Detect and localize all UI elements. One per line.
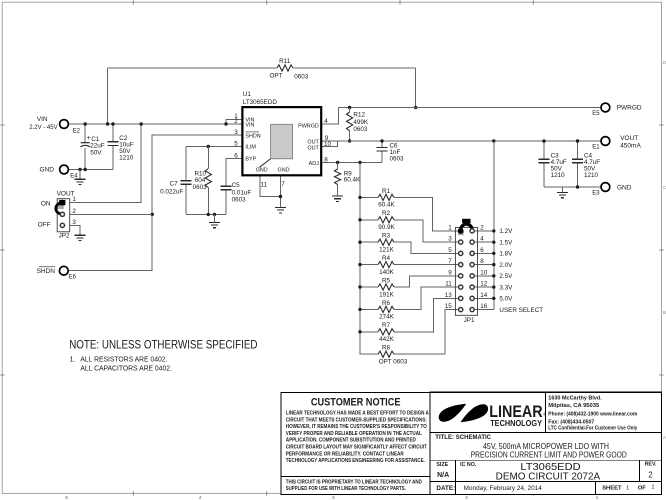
svg-text:3.3V: 3.3V [499, 284, 513, 291]
resistor R6 274K [378, 306, 394, 312]
junction rail / R3 [358, 241, 361, 244]
wire JP2 pin 2 to SHDN [70, 213, 153, 215]
svg-text:1: 1 [651, 484, 654, 490]
resistor R4 140K [378, 262, 394, 268]
resistor R3 121K [378, 239, 394, 245]
capacitor C2 symbol [108, 142, 119, 146]
junction VOUT / R12 [348, 139, 351, 142]
junction E4 / C1 [84, 168, 87, 171]
svg-text:2.5V: 2.5V [499, 273, 513, 280]
svg-text:IC NO.: IC NO. [460, 462, 477, 468]
resistor R11 OPT 0603 [277, 65, 293, 71]
svg-text:PWRGD: PWRGD [298, 123, 319, 129]
svg-text:2.2V - 45V: 2.2V - 45V [29, 125, 57, 131]
svg-text:140K: 140K [379, 269, 395, 276]
wire R11 right riser to PWRGD net [415, 68, 417, 108]
junction rail / ground [213, 213, 216, 216]
junction VIN / C2 [111, 122, 114, 125]
svg-text:3: 3 [448, 236, 452, 243]
wire ADJ net [321, 162, 382, 164]
svg-text:1: 1 [448, 224, 452, 231]
wire JP1 pin 8 to VOUT rail [474, 264, 494, 266]
wire C6 bottom stub [381, 151, 383, 163]
JP1 pin 5 pad [459, 251, 463, 255]
svg-text:Fax: (408)434-0507: Fax: (408)434-0507 [548, 420, 594, 426]
svg-text:JP1: JP1 [464, 317, 475, 324]
svg-text:SIZE: SIZE [436, 462, 448, 468]
svg-text:8: 8 [324, 157, 328, 164]
capacitor C5 symbol [220, 186, 231, 190]
svg-text:2: 2 [234, 118, 238, 125]
svg-text:E2: E2 [73, 129, 81, 135]
wire C4 top stub [577, 141, 579, 159]
wire R6 to JP1 odd pin [394, 287, 459, 309]
svg-text:121K: 121K [379, 247, 395, 254]
svg-text:ALL RESISTORS ARE 0402.: ALL RESISTORS ARE 0402. [80, 357, 167, 364]
svg-text:R1: R1 [382, 188, 391, 195]
svg-text:1630 McCarthy Blvd.: 1630 McCarthy Blvd. [548, 395, 602, 401]
wire C2 top stub [112, 124, 114, 142]
junction rail / pin 6 [492, 252, 495, 255]
svg-text:+: + [87, 135, 91, 142]
JP2 shunt plug over pin 1 [59, 200, 65, 205]
wire C3 bottom stub [543, 163, 545, 187]
svg-text:0603: 0603 [232, 197, 247, 204]
JP1 pin 11 pad [459, 285, 463, 289]
Linear Technology logo [439, 404, 467, 422]
svg-text:1210: 1210 [119, 154, 134, 161]
resistor R12 499K 0603 [347, 112, 353, 131]
capacitor C6 symbol [377, 147, 388, 151]
wire ground stem [214, 214, 216, 222]
junction ADJ / R9 [336, 161, 339, 164]
svg-text:JP2: JP2 [59, 233, 70, 240]
junction ADJ / divider rail [358, 161, 361, 164]
wire JP1 pin 16 to VOUT rail [474, 309, 494, 311]
svg-text:R6: R6 [382, 300, 391, 307]
svg-text:11: 11 [445, 281, 452, 288]
svg-text:1.5V: 1.5V [499, 239, 513, 246]
ground at U1 pins 7/11 [275, 207, 286, 212]
svg-text:3: 3 [234, 129, 238, 136]
wire C7 bottom branch [185, 184, 187, 214]
wire JP1 pin 12 to VOUT rail [474, 286, 494, 288]
terminal E4 GND [60, 165, 69, 174]
svg-text:R2: R2 [382, 210, 391, 217]
wire C6 top stub [381, 141, 383, 147]
svg-text:ILIM: ILIM [245, 145, 256, 151]
svg-text:1.8V: 1.8V [499, 251, 513, 258]
svg-text:499K: 499K [353, 119, 369, 126]
wire JP1 pin 4 to VOUT rail [474, 241, 494, 243]
svg-text:R3: R3 [382, 233, 391, 240]
svg-text:HOWEVER, IT REMAINS THE CUSTOM: HOWEVER, IT REMAINS THE CUSTOMER'S RESPO… [286, 424, 427, 430]
wire R12 bottom stub [349, 131, 351, 141]
svg-text:TECHNOLOGY: TECHNOLOGY [490, 418, 542, 428]
svg-text:R8: R8 [382, 345, 391, 352]
svg-text:OPT: OPT [270, 73, 283, 80]
wire JP1 pin 14 to VOUT rail [474, 297, 494, 299]
svg-text:10: 10 [480, 269, 488, 276]
svg-text:E4: E4 [70, 174, 78, 180]
wire U1 pin 4 PWRGD stub [321, 108, 338, 125]
svg-text:6: 6 [480, 247, 484, 254]
U1 pin name labels [245, 117, 319, 173]
ground at R9 [332, 196, 343, 201]
wire JP2 pin 1 to VIN [70, 124, 142, 203]
junction VOUT / C3 [542, 139, 545, 142]
ground at C5/C7/R10 [209, 222, 220, 227]
svg-text:8: 8 [480, 258, 484, 265]
wire rail to R7 [360, 331, 378, 333]
wire R7 to JP1 odd pin [394, 298, 459, 331]
terminal E3 GND [601, 183, 610, 192]
terminal E5 PWRGD [601, 103, 610, 112]
svg-text:GND: GND [617, 184, 632, 191]
wire VIN net: E2 to U1 pin 2 [68, 123, 242, 125]
svg-text:ON: ON [41, 200, 51, 207]
svg-text:4: 4 [480, 236, 484, 243]
wire rail to R1 [360, 196, 378, 198]
svg-text:5: 5 [448, 247, 452, 254]
svg-text:BYP: BYP [245, 157, 256, 163]
JP1 pin 4 pad [470, 240, 474, 244]
JP1 pin 15 pad [459, 307, 463, 311]
wire rail to R4 [360, 264, 378, 266]
svg-text:THIS CIRCUIT IS PROPRIETARY TO: THIS CIRCUIT IS PROPRIETARY TO LINEAR TE… [286, 479, 422, 485]
JP1 pin 8 pad [470, 263, 474, 267]
svg-text:5: 5 [234, 140, 238, 147]
capacitor C1 symbol [80, 143, 90, 147]
JP1 pin 12 pad [470, 285, 474, 289]
terminal E6 SHDN [59, 266, 68, 275]
svg-text:191K: 191K [379, 291, 395, 298]
wire JP1 pin 6 to VOUT rail [474, 252, 494, 254]
svg-text:PERFORMANCE OR RELIABILITY. C: PERFORMANCE OR RELIABILITY. CONTACT LINE… [286, 451, 404, 457]
resistor R10 604 0603 [205, 169, 211, 188]
svg-text:0603: 0603 [353, 126, 368, 133]
svg-text:E1: E1 [592, 145, 600, 151]
svg-text:N/A: N/A [437, 472, 449, 479]
terminal E2 VIN [60, 120, 69, 129]
svg-text:3: 3 [72, 219, 76, 226]
ground at E4 [75, 179, 86, 184]
svg-text:1210: 1210 [584, 172, 599, 179]
svg-text:DATE:: DATE: [436, 485, 455, 492]
JP1 pin 1 pad [459, 229, 463, 233]
svg-text:0603: 0603 [193, 184, 208, 191]
JP1 pin 14 pad [470, 296, 474, 300]
junction PWRGD / R11 [414, 106, 417, 109]
svg-text:4: 4 [199, 495, 202, 500]
junction rail / pin 12 [492, 285, 495, 288]
svg-text:16: 16 [480, 303, 488, 310]
svg-text:0603: 0603 [294, 73, 309, 80]
wire R10 bottom stub [207, 188, 209, 215]
resistor R2 90.9K [378, 217, 394, 223]
junction U1 ground pins [279, 195, 282, 198]
junction rail / R6 [358, 308, 361, 311]
svg-text:0.01uF: 0.01uF [232, 189, 252, 196]
svg-text:R4: R4 [382, 255, 391, 262]
svg-text:TECHNOLOGY APPLICATIONS ENGINE: TECHNOLOGY APPLICATIONS ENGINEERING FOR … [286, 458, 425, 464]
wire VOUT net: U1 pin 9 to E1 [321, 140, 601, 142]
wire R9 bottom stub [337, 185, 339, 197]
svg-text:NOTE: UNLESS OTHERWISE SPECIFI: NOTE: UNLESS OTHERWISE SPECIFIED [69, 337, 258, 351]
wire divider rail from ADJ [360, 163, 378, 355]
wire R3 to JP1 odd pin [394, 242, 459, 253]
wire U1 pin 11 to ground [260, 175, 280, 196]
wire rail to R2 [360, 219, 378, 221]
customer notice box [281, 392, 430, 494]
svg-text:4: 4 [324, 118, 328, 125]
svg-text:VIN: VIN [37, 116, 48, 123]
svg-text:0603: 0603 [390, 156, 405, 163]
junction VOUT / JP1 rail [492, 139, 495, 142]
svg-text:SHDN: SHDN [245, 133, 260, 139]
svg-text:U1: U1 [243, 91, 252, 98]
svg-text:OFF: OFF [38, 222, 51, 229]
wire R5 to JP1 odd pin [394, 276, 459, 287]
svg-text:7: 7 [448, 258, 452, 265]
svg-text:11: 11 [261, 181, 268, 188]
wire R11 left riser [107, 68, 109, 124]
wire VOUT rail to JP1 even pins [493, 141, 495, 310]
svg-text:E6: E6 [69, 275, 77, 281]
resistor R8 OPT 0603 [378, 351, 394, 357]
svg-text:60.4K: 60.4K [378, 202, 395, 209]
ground at C3/C4 [557, 192, 568, 197]
svg-text:Phone: (408)432-1900 www.lin: Phone: (408)432-1900 www.linear.com [548, 411, 637, 417]
svg-text:DEMO CIRCUIT 2072A: DEMO CIRCUIT 2072A [496, 471, 601, 483]
wire PWRGD net to E5 [338, 107, 601, 109]
svg-text:SHDN: SHDN [37, 268, 56, 275]
wire R12 top stub [349, 108, 351, 113]
wire BYP net: U1 pin 6 to C5 [226, 159, 243, 187]
svg-text:PRECISION CURRENT LIMIT AND PO: PRECISION CURRENT LIMIT AND POWER GOOD [471, 451, 627, 460]
svg-text:R5: R5 [382, 277, 391, 284]
resistor R9 60.4K [335, 169, 341, 185]
svg-text:60.4K: 60.4K [344, 177, 361, 184]
svg-text:12: 12 [480, 281, 488, 288]
svg-text:1210: 1210 [551, 172, 566, 179]
svg-text:2: 2 [465, 495, 468, 500]
svg-text:14: 14 [480, 292, 488, 299]
junction rail / pin 2 [492, 229, 495, 232]
junction C4 / GND net [576, 185, 579, 188]
resistor R1 60.4K [378, 194, 394, 200]
svg-text:2: 2 [72, 208, 76, 215]
wire U1 pin 7 to ground [280, 175, 282, 207]
svg-text:CUSTOMER NOTICE: CUSTOMER NOTICE [311, 396, 401, 408]
svg-text:C5: C5 [232, 182, 241, 189]
wire rail to R5 [360, 286, 378, 288]
svg-text:OPT 0603: OPT 0603 [379, 359, 408, 366]
junction rail / R2 [358, 218, 361, 221]
svg-text:6: 6 [234, 152, 238, 159]
junction E4 / ground stem [78, 168, 81, 171]
junction PWRGD / R12 [348, 106, 351, 109]
junction rail / pin 8 [492, 263, 495, 266]
svg-text:5.0V: 5.0V [499, 296, 513, 303]
svg-text:REV.: REV. [645, 462, 657, 468]
junction VOUT / C4 [576, 139, 579, 142]
svg-text:15: 15 [445, 303, 453, 310]
svg-text:LTC Confidential-For Customer: LTC Confidential-For Customer Use Only [548, 426, 638, 432]
wire rail to R3 [360, 241, 378, 243]
resistor R7 442K [378, 329, 394, 335]
svg-text:1.2V: 1.2V [499, 228, 513, 235]
capacitor C3 symbol [539, 159, 550, 163]
svg-text:CIRCUIT THAT MEETS CUSTOMER-SU: CIRCUIT THAT MEETS CUSTOMER-SUPPLIED SPE… [286, 417, 427, 423]
svg-text:3: 3 [332, 495, 335, 500]
svg-text:LT3065EDD: LT3065EDD [243, 99, 278, 106]
op-amp U1 LT3065EDD regulator body [242, 107, 321, 175]
JP1 pin 16 pad [470, 307, 474, 311]
svg-text:R12: R12 [353, 112, 365, 119]
junction ILIM / R10 [207, 145, 210, 148]
svg-text:GND: GND [256, 168, 268, 174]
wire C2 bottom stub [112, 146, 114, 170]
svg-text:2: 2 [648, 470, 653, 479]
junction rail / R5 [358, 285, 361, 288]
svg-text:VOUT: VOUT [620, 135, 638, 142]
svg-text:10: 10 [324, 141, 332, 148]
svg-text:E5: E5 [592, 111, 600, 117]
wire C5 bottom stub [225, 190, 227, 215]
JP1 pin 7 pad [459, 263, 463, 267]
junction SHDN / JP2 pin 2 [151, 213, 154, 216]
svg-text:1.: 1. [70, 357, 76, 364]
wire R1 to JP1 odd pin [394, 197, 459, 231]
svg-text:R7: R7 [382, 322, 391, 329]
svg-text:GND: GND [278, 168, 290, 174]
svg-text:9: 9 [448, 269, 452, 276]
svg-text:VIN: VIN [245, 122, 254, 128]
capacitor C7 symbol [180, 181, 191, 185]
wire R8 to JP1 odd pin [394, 310, 459, 355]
junction VIN / C1 [84, 122, 87, 125]
junction VIN / R11 [106, 122, 109, 125]
junction VIN / JP2 riser [140, 122, 143, 125]
wire R9 top stub [337, 163, 339, 170]
wire C7 top branch [185, 147, 187, 181]
JP1 pin 6 pad [470, 251, 474, 255]
wire C1 top stub [84, 124, 86, 143]
svg-text:APPLICATION. COMPONENT SUBSTI: APPLICATION. COMPONENT SUBSTITUTION AND … [286, 438, 416, 444]
svg-text:C7: C7 [170, 180, 179, 187]
JP1 pin 10 pad [470, 274, 474, 278]
svg-text:PWRGD: PWRGD [617, 105, 642, 112]
resistor R5 191K [378, 284, 394, 290]
wire R2 to JP1 odd pin [394, 220, 459, 242]
junction rail / pin 14 [492, 297, 495, 300]
svg-text:90.9K: 90.9K [378, 224, 395, 231]
wire C4 bottom stub [577, 163, 579, 187]
svg-text:Monday, February 24, 2014: Monday, February 24, 2014 [464, 485, 543, 492]
wire JP1 pin 10 to VOUT rail [474, 275, 494, 277]
svg-text:®: ® [543, 411, 546, 416]
JP2 pin 1 pad [60, 201, 64, 205]
svg-text:Milpitas, CA 95035: Milpitas, CA 95035 [548, 403, 600, 409]
JP1 shunt plug over pin 1 [458, 228, 464, 234]
terminal E1 VOUT [601, 137, 610, 146]
JP1 shunt jumper on pins 1-2 [458, 232, 464, 236]
svg-text:450mA: 450mA [620, 142, 641, 149]
junction rail / pin 10 [492, 274, 495, 277]
wire U1 pin 10 link [321, 141, 337, 147]
wire U1 pin 1 link [226, 120, 242, 125]
JP1 pin 13 pad [459, 296, 463, 300]
wire R4 to JP1 pin 7 [394, 264, 459, 266]
svg-text:SHEET: SHEET [602, 486, 622, 492]
wire JP1 pin 2 to VOUT rail [474, 230, 494, 232]
svg-text:OF: OF [638, 486, 647, 492]
wire ground stem at E4 [79, 170, 81, 180]
wire C1 bottom stub [84, 148, 86, 169]
JP2 pin 3 pad [60, 223, 64, 227]
connector JP1 body [455, 227, 477, 315]
wire JP2 pin 3 to ground [70, 225, 80, 235]
svg-text:0.022uF: 0.022uF [160, 189, 183, 196]
junction VIN pin link [224, 122, 227, 125]
svg-text:1: 1 [596, 495, 599, 500]
junction rail / R1 [358, 196, 361, 199]
wire ILIM/BYP ground rail [186, 213, 226, 215]
U1 exposed pad tie line [259, 159, 270, 168]
svg-text:SCHEMATIC: SCHEMATIC [456, 435, 492, 441]
junction rail / R10 [207, 213, 210, 216]
title block frame [430, 392, 661, 494]
JP1 pin 9 pad [459, 274, 463, 278]
svg-text:7: 7 [281, 181, 285, 188]
svg-text:E3: E3 [592, 191, 600, 197]
svg-text:TITLE:: TITLE: [435, 435, 454, 441]
wire ILIM net: U1 pin 5 [186, 146, 243, 148]
ground at JP2 pin 3 [75, 235, 86, 240]
svg-text:OUT: OUT [307, 145, 319, 151]
junction rail / R7 [358, 330, 361, 333]
junction rail / pin 4 [492, 240, 495, 243]
wire R11 right segment [294, 67, 416, 69]
capacitor C4 symbol [572, 159, 583, 163]
JP1 pin 2 pad [470, 229, 474, 233]
JP2 shunt ON jumper [58, 205, 64, 209]
svg-text:CIRCUIT BOARD LAYOUT MAY SIGNI: CIRCUIT BOARD LAYOUT MAY SIGNIFICANTLY A… [286, 445, 428, 451]
wire R10 top stub [207, 147, 209, 169]
svg-text:2: 2 [480, 224, 484, 231]
wire ground stem at E3 [562, 187, 564, 192]
svg-text:274K: 274K [379, 314, 395, 321]
wire rail to R6 [360, 308, 378, 310]
wire SHDN net: U1 pin 3 to E6 [68, 135, 242, 271]
svg-text:GND: GND [40, 166, 55, 173]
JP1 pin 3 pad [459, 240, 463, 244]
svg-text:SUPPLIED FOR USE WITH LINEAR T: SUPPLIED FOR USE WITH LINEAR TECHNOLOGY … [286, 486, 406, 492]
junction rail / R4 [358, 263, 361, 266]
svg-text:ADJ: ADJ [309, 161, 319, 167]
svg-text:ALL CAPACITORS ARE 0402.: ALL CAPACITORS ARE 0402. [80, 366, 172, 373]
svg-text:LINEAR TECHNOLOGY HAS MADE A B: LINEAR TECHNOLOGY HAS MADE A BEST EFFORT… [286, 411, 429, 417]
wire R11 left segment [108, 67, 277, 69]
svg-text:442K: 442K [379, 336, 395, 343]
svg-text:13: 13 [445, 292, 453, 299]
connector JP2 body [57, 199, 69, 232]
svg-text:1: 1 [626, 486, 629, 492]
wire GND net: C3/C4 to E3 [544, 186, 601, 188]
svg-text:USER SELECT: USER SELECT [499, 307, 543, 314]
svg-text:5: 5 [65, 495, 68, 500]
